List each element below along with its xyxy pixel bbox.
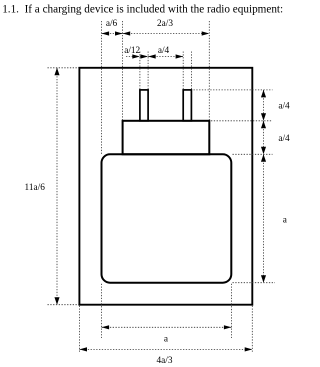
arrow 4a/3 right	[245, 347, 253, 351]
extension line body-left vertical (bottom)	[101, 284, 103, 338]
svg-text:4a/3: 4a/3	[156, 356, 172, 366]
arrow 2a/3 left	[123, 31, 131, 35]
arrow a/6 left	[102, 31, 110, 35]
extension line prong1-right vertical	[147, 52, 149, 90]
dimension line a bottom	[102, 326, 232, 328]
arrow 4a/3 left	[79, 347, 87, 351]
extension line outer-bottom horizontal left	[48, 304, 79, 306]
svg-text:a/4: a/4	[278, 134, 290, 144]
dimension line right vertical (a/4,a/4,a)	[263, 90, 265, 283]
extension line body-bottom horizontal right	[233, 282, 276, 284]
extension line body-right vertical (bottom)	[231, 284, 233, 338]
dimension line 4a/3 bottom	[79, 348, 252, 350]
svg-text:2a/3: 2a/3	[157, 19, 173, 29]
dimension line a/4 top	[148, 56, 183, 58]
charger neck	[123, 121, 210, 155]
arrow a bottom right	[224, 325, 232, 329]
extension line body-left vertical (top)	[101, 21, 103, 154]
extension line body-top horizontal right	[233, 153, 273, 155]
extension line neck-right vertical (top)	[208, 21, 210, 121]
svg-text:a/12: a/12	[124, 46, 140, 56]
arrow right-dim top up	[261, 90, 266, 98]
arrow left-dim bottom down	[54, 297, 59, 305]
prong left	[140, 90, 148, 121]
extension line prong2-right vertical	[190, 52, 192, 90]
arrow a/6 right	[115, 31, 123, 35]
svg-text:a/4: a/4	[158, 46, 170, 56]
extension line outer-top horizontal left	[48, 67, 79, 69]
svg-text:a: a	[164, 335, 168, 345]
extension line prong-top horizontal right	[194, 89, 273, 91]
dimension leader a/12	[126, 56, 148, 58]
extension line outer-right vertical (bottom)	[251, 306, 253, 353]
arrow right-dim neck-top up	[261, 121, 266, 129]
dimension line 2a/3 top	[123, 33, 210, 35]
dimension line left vertical 11a/6	[56, 68, 58, 305]
arrow right-dim body-bottom down	[261, 275, 266, 283]
svg-text:a/6: a/6	[106, 19, 118, 29]
arrow right-dim body-top up	[261, 154, 266, 162]
arrow a/12 inner-right	[141, 54, 149, 58]
svg-text:1.1. If a charging device is: 1.1. If a charging device is included wi…	[2, 4, 283, 16]
arrow 2a/3 right	[202, 31, 210, 35]
svg-text:11a/6: 11a/6	[25, 183, 46, 193]
arrow right-dim neck-top down	[261, 113, 266, 121]
charger body (rounded)	[102, 154, 232, 282]
outer enclosure rectangle	[79, 68, 252, 305]
extension line prong1-left vertical	[139, 52, 141, 90]
extension line outer-left vertical (bottom)	[78, 306, 80, 353]
arrow right-dim body-top down	[261, 147, 266, 155]
svg-text:a/4: a/4	[278, 101, 290, 111]
svg-text:a: a	[283, 216, 287, 226]
arrow a/12 outer-left	[132, 54, 140, 58]
arrow a/4 right	[176, 54, 184, 58]
arrow left-dim top up	[54, 68, 59, 76]
prong right	[183, 90, 191, 121]
arrow a/4 left	[148, 54, 156, 58]
extension line neck-left vertical (top)	[122, 21, 124, 121]
dimension line a/6 top	[102, 33, 123, 35]
extension line prong2-left vertical	[182, 52, 184, 90]
arrow a bottom left	[102, 325, 110, 329]
extension line neck-top horizontal right	[211, 120, 273, 122]
